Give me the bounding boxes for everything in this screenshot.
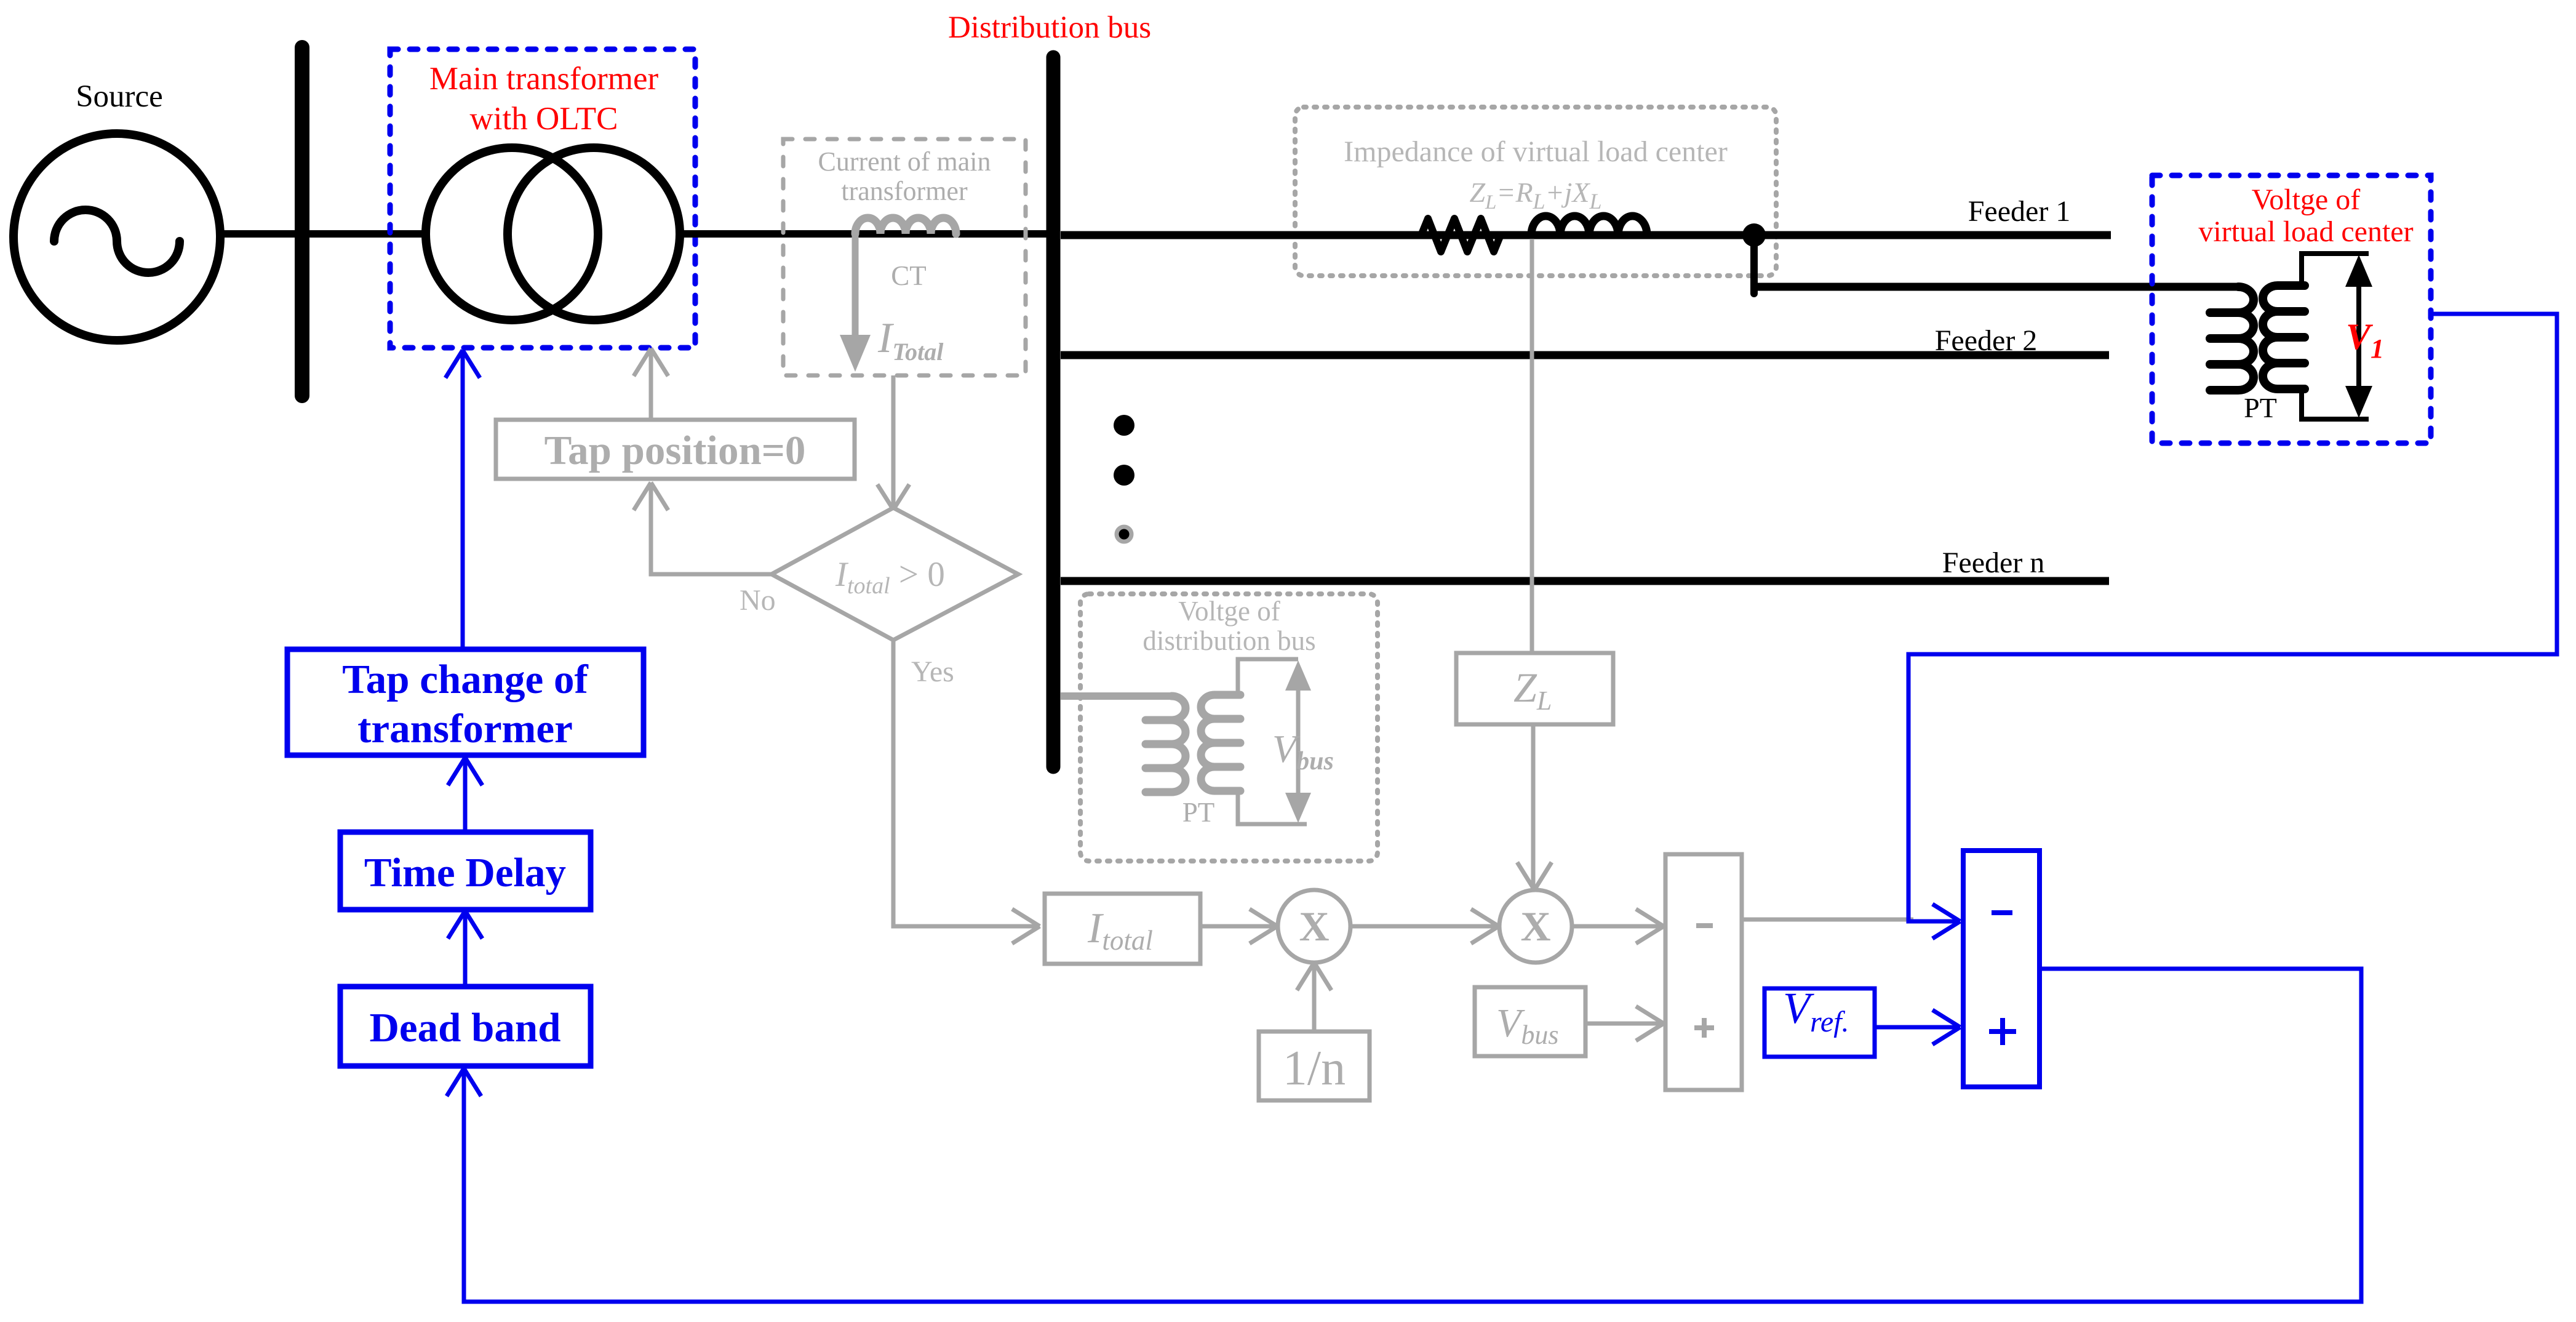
svg-text:virtual load center: virtual load center bbox=[2198, 215, 2413, 248]
ZL box bbox=[1456, 653, 1613, 724]
wire junction drop bbox=[1750, 235, 1758, 294]
ZL tap wire from feeder 1 bbox=[1530, 239, 1534, 653]
svg-text:Current of main: Current of main bbox=[818, 146, 991, 177]
svg-text:transformer: transformer bbox=[357, 706, 573, 751]
1/n box bbox=[1259, 1032, 1370, 1100]
PT gray left winding bbox=[1146, 696, 1186, 792]
wire I_total to X1 bbox=[1200, 924, 1274, 929]
wire V_ref to blue summing plus input bbox=[1875, 1025, 1956, 1030]
svg-text:Feeder 1: Feeder 1 bbox=[1968, 195, 2071, 228]
blue arrow tap change to transformer box bbox=[461, 354, 465, 649]
svg-text:No: No bbox=[740, 584, 776, 617]
gray minus sign bbox=[1696, 923, 1713, 928]
resistor RL bbox=[1421, 218, 1501, 252]
transformer T1 circle 1 bbox=[426, 148, 598, 320]
junction node on feeder 1 bbox=[1742, 223, 1766, 247]
CT gray dashed box bbox=[783, 139, 1026, 375]
bus bar B1 bbox=[295, 47, 309, 396]
wire No path: diamond left to tap position box bbox=[651, 486, 772, 574]
svg-text:X: X bbox=[1520, 903, 1550, 950]
transformer T1 circle 2 bbox=[508, 148, 680, 320]
Tap position=0 box bbox=[496, 420, 855, 479]
wire CT box to diamond bbox=[891, 375, 896, 506]
V_bus measurement arrow bbox=[1296, 668, 1301, 815]
gray plus sign bbox=[1694, 1018, 1714, 1038]
inductor XL bbox=[1531, 216, 1647, 235]
PT black right winding bbox=[2263, 286, 2305, 389]
decision diamond I_total>0 bbox=[772, 508, 1018, 640]
arrowhead into diamond bbox=[877, 484, 909, 510]
svg-text:Main transformer: Main transformer bbox=[429, 61, 659, 97]
svg-text:distribution bus: distribution bus bbox=[1142, 625, 1315, 656]
wire X2 to summing rect bbox=[1572, 924, 1660, 929]
V_ref box bbox=[1765, 988, 1875, 1057]
source sine wave bbox=[54, 210, 180, 273]
svg-text:Impedance of virtual load cent: Impedance of virtual load center bbox=[1344, 135, 1728, 168]
gray summing rect bbox=[1665, 854, 1742, 1090]
main transformer blue dashed box bbox=[390, 49, 695, 348]
wire ZL to X2 bbox=[1531, 724, 1536, 886]
V1 measurement arrow bbox=[2356, 265, 2361, 408]
blue summing rect bbox=[1963, 851, 2040, 1087]
svg-text:1/n: 1/n bbox=[1283, 1041, 1346, 1096]
CT arrow down bbox=[852, 234, 859, 337]
impedance of virtual load center dotted box bbox=[1295, 107, 1776, 276]
wire 1/n to X1 bbox=[1312, 966, 1317, 1032]
blue arrow dead band to time delay bbox=[463, 915, 468, 987]
voltage of distribution bus gray dotted box bbox=[1080, 594, 1378, 861]
voltage of virtual load center blue dashed box bbox=[2152, 175, 2431, 443]
multiplier X2 bbox=[1499, 890, 1572, 963]
feeder n line bbox=[1061, 577, 2109, 585]
PT black connections bbox=[2302, 254, 2369, 286]
wire V_bus to summing rect bbox=[1585, 1022, 1660, 1026]
PT transformer black left winding bbox=[2210, 287, 2254, 390]
svg-text:Voltge of: Voltge of bbox=[2252, 183, 2360, 216]
wire X1 to X2 bbox=[1350, 924, 1495, 929]
wire transformer to distribution bus bbox=[680, 230, 1050, 238]
CT coil bbox=[855, 218, 956, 234]
svg-text:PT: PT bbox=[2244, 392, 2277, 423]
svg-text:Time Delay: Time Delay bbox=[364, 850, 566, 895]
svg-text:Dead band: Dead band bbox=[370, 1005, 561, 1051]
source G1 circle bbox=[14, 134, 220, 340]
svg-text:PT: PT bbox=[1182, 797, 1215, 828]
svg-text:Yes: Yes bbox=[911, 655, 954, 688]
svg-text:transformer: transformer bbox=[841, 176, 968, 206]
wire bus to PT gray bbox=[1061, 692, 1171, 700]
wire gray summing rect output bbox=[1742, 918, 1913, 922]
multiplier X1 bbox=[1278, 890, 1350, 963]
blue wire from PT box to blue summing minus input bbox=[1908, 314, 2557, 921]
svg-text:Feeder n: Feeder n bbox=[1942, 547, 2045, 579]
svg-text:CT: CT bbox=[891, 260, 927, 291]
svg-text:Tap change of: Tap change of bbox=[342, 657, 588, 702]
Time Delay box bbox=[340, 832, 591, 910]
blue plus sign bbox=[1989, 1018, 2016, 1045]
svg-text:X: X bbox=[1299, 903, 1329, 950]
distribution bus bar bbox=[1047, 57, 1061, 767]
I_total box bbox=[1045, 894, 1200, 964]
svg-text:Distribution bus: Distribution bus bbox=[948, 10, 1151, 45]
wire to PT bbox=[1750, 283, 2238, 291]
wire source to bus1 bbox=[219, 230, 423, 238]
svg-text:Feeder 2: Feeder 2 bbox=[1935, 324, 2038, 357]
Dead band box bbox=[340, 987, 591, 1066]
blue arrow time delay to tap change bbox=[463, 761, 468, 832]
Tap change of transformer box bbox=[287, 649, 644, 755]
dots between feeders bbox=[1114, 415, 1134, 436]
blue minus sign bbox=[1992, 910, 2012, 915]
svg-text:Tap position=0: Tap position=0 bbox=[544, 428, 806, 473]
PT gray right winding bbox=[1201, 695, 1240, 791]
V_bus box bbox=[1475, 987, 1585, 1056]
svg-text:with OLTC: with OLTC bbox=[470, 101, 618, 137]
feeder 1 line bbox=[1061, 231, 2111, 239]
svg-text:Voltge of: Voltge of bbox=[1178, 596, 1280, 627]
feeder 2 line bbox=[1061, 351, 2109, 359]
svg-text:Source: Source bbox=[76, 79, 163, 114]
PT gray connections bbox=[1238, 659, 1298, 695]
blue feedback wire output to dead band bbox=[464, 969, 2361, 1302]
wire Yes path: diamond bottom to I_total box bbox=[893, 640, 1036, 926]
wire tap position box to transformer box (gray arrow) bbox=[649, 351, 653, 420]
